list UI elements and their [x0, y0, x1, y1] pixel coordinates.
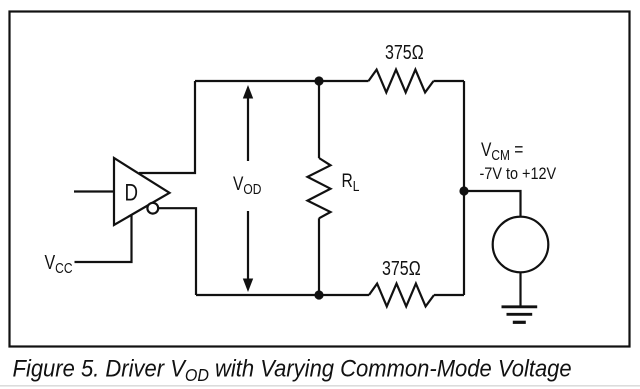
wire noninverting output to top rail [139, 81, 195, 173]
resistor R1 375 ohm top [369, 41, 434, 92]
wire driver input [74, 190, 114, 192]
wire source to ground [519, 272, 521, 306]
wire bottom rail right of resistor [434, 294, 464, 296]
faint separator line at page bottom [0, 385, 640, 387]
resistor RL (vertical) [308, 158, 360, 218]
op-amp driver D (triangle) [114, 158, 170, 225]
svg-text:Figure 5. Driver VOD with Vary: Figure 5. Driver VOD with Varying Common… [13, 355, 572, 386]
svg-text:-7V to +12V: -7V to +12V [480, 165, 557, 183]
wire top rail left of resistor [195, 80, 369, 82]
resistor R2 375 ohm bottom [369, 257, 434, 306]
wire RL top lead [318, 81, 320, 158]
wire RL bottom lead [318, 218, 320, 295]
label VCM [480, 139, 557, 184]
svg-text:375Ω: 375Ω [382, 257, 421, 279]
wire inverting output (from bubble) [158, 208, 196, 295]
node junction top [314, 76, 323, 85]
ground [502, 307, 538, 323]
svg-text:375Ω: 375Ω [385, 41, 424, 63]
wire right vertical [463, 81, 465, 295]
voltage source VCM (circle) [493, 217, 549, 273]
node junction VCM [459, 186, 468, 195]
node junction bottom [314, 290, 323, 299]
wire bottom rail left of resistor [196, 294, 369, 296]
arrow VOD (differential voltage) [233, 85, 262, 292]
wire VCC to driver [75, 215, 132, 262]
inversion bubble [147, 203, 158, 214]
wire top rail right of resistor [434, 80, 465, 82]
svg-text:D: D [125, 179, 139, 206]
label VCC [45, 251, 73, 276]
wire node to source [464, 191, 521, 217]
